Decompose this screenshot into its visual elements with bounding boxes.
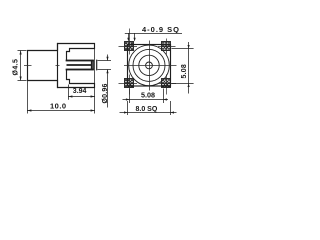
legs (4x 0.9 SQ) with hatching [125,42,171,88]
3.94 arrowheads [68,95,94,97]
svg-text:Ø4.5: Ø4.5 [12,59,19,76]
O4.5 arrowheads [20,51,22,81]
leg hatching [125,42,171,88]
svg-text:5.08: 5.08 [181,64,188,78]
connector body outline [28,44,95,88]
dimension 5.08 (right side, vertical) [172,42,194,94]
10.0 arrowheads [27,109,94,111]
dimension 5.08 (bottom, horizontal) [123,89,169,104]
5.08 right arrowheads [188,45,190,87]
dimension O0.96 [98,55,112,108]
body square [128,45,171,87]
svg-text:10.0: 10.0 [50,102,67,111]
pin groove lines [92,61,94,70]
circles [129,45,170,86]
8.0 SQ arrowheads [124,111,174,113]
center axis line [24,64,91,66]
dimension O4.5 [18,51,27,81]
svg-text:5.08: 5.08 [141,90,155,99]
svg-text:3.94: 3.94 [73,88,87,95]
svg-text:8.0 SQ: 8.0 SQ [136,106,158,113]
leg center lines [119,29,177,95]
svg-text:Ø0.96: Ø0.96 [102,83,109,103]
flange boundary line [57,44,59,88]
dimension 10.0 [27,81,94,114]
dimension 8.0 SQ (bottom) [120,101,177,115]
O0.96 arrowheads [106,57,108,74]
svg-text:4-0.9 SQ: 4-0.9 SQ [142,25,180,34]
pin top and bottom edges (thick) [67,61,94,70]
pin tip end cap [96,60,98,70]
center lines of view [124,41,177,91]
5.08 bottom arrowheads [126,98,167,100]
4-0.9 SQ leader arrowheads [127,38,135,42]
dimension 3.94 [68,49,94,114]
